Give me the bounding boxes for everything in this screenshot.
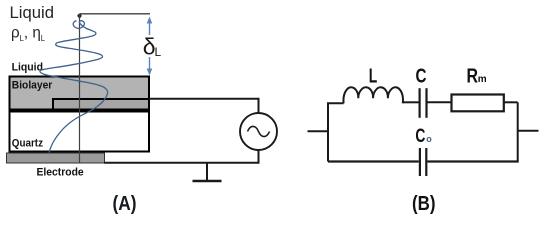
biolayer box bbox=[10, 77, 150, 110]
svg-text:L: L bbox=[155, 45, 162, 59]
quartz box bbox=[10, 112, 150, 152]
svg-text:Quartz: Quartz bbox=[12, 138, 44, 150]
svg-text:Liquid: Liquid bbox=[10, 4, 54, 22]
svg-text:o: o bbox=[426, 134, 432, 144]
wire C0 to right vertical bbox=[427, 160, 518, 162]
measurement line top bbox=[77, 14, 150, 18]
svg-text:ρL, ηL: ρL, ηL bbox=[11, 25, 46, 44]
label Biolayer bbox=[12, 79, 53, 91]
label Quartz bbox=[12, 138, 44, 150]
capacitor C bbox=[420, 88, 427, 118]
svg-text:m: m bbox=[478, 74, 487, 85]
wire right vertical bbox=[517, 102, 519, 161]
ground bbox=[193, 163, 222, 181]
label (A) bbox=[113, 193, 137, 215]
bottom electrode bar bbox=[7, 153, 105, 163]
label Liquid (bulk liquid) bbox=[10, 4, 54, 22]
svg-text:Electrode: Electrode bbox=[37, 166, 84, 178]
resistor Rm bbox=[452, 95, 504, 112]
svg-text:(A): (A) bbox=[113, 193, 137, 215]
wire inductor to C bbox=[403, 101, 419, 103]
label delta_L bbox=[143, 34, 162, 60]
svg-text:C: C bbox=[415, 126, 425, 147]
AC source bbox=[240, 113, 277, 150]
svg-text:Biolayer: Biolayer bbox=[12, 79, 53, 91]
label (B) bbox=[412, 193, 436, 215]
wire C to resistor bbox=[428, 101, 452, 103]
node axis vertical line bbox=[79, 14, 81, 163]
svg-text:C: C bbox=[416, 65, 427, 87]
wire top electrode to source bbox=[149, 99, 259, 114]
label C bbox=[416, 65, 427, 87]
capacitor C0 bbox=[420, 148, 426, 176]
label Electrode bbox=[37, 166, 84, 178]
shear wave spiral bbox=[40, 21, 108, 153]
top electrode layer bbox=[53, 99, 149, 110]
svg-text:Liquid: Liquid bbox=[12, 61, 43, 73]
label Liquid (interface) bbox=[12, 61, 43, 73]
svg-text:R: R bbox=[467, 65, 479, 87]
delta_L dimension arrow bbox=[147, 17, 153, 76]
wire bottom left to C0 bbox=[328, 160, 419, 162]
wire to inductor bbox=[327, 102, 344, 104]
label Rm bbox=[467, 65, 487, 87]
wire left vertical bbox=[327, 103, 329, 161]
wire resistor to right vertical bbox=[504, 101, 518, 103]
svg-text:L: L bbox=[369, 65, 378, 87]
wire source to bottom electrode bbox=[104, 150, 259, 163]
svg-text:(B): (B) bbox=[412, 193, 436, 215]
label rho_L, eta_L bbox=[11, 25, 46, 44]
inductor L bbox=[343, 87, 403, 103]
label L bbox=[369, 65, 378, 87]
terminal stub right bbox=[518, 130, 539, 132]
terminal stub left bbox=[308, 130, 329, 132]
label C0 bbox=[415, 126, 432, 147]
